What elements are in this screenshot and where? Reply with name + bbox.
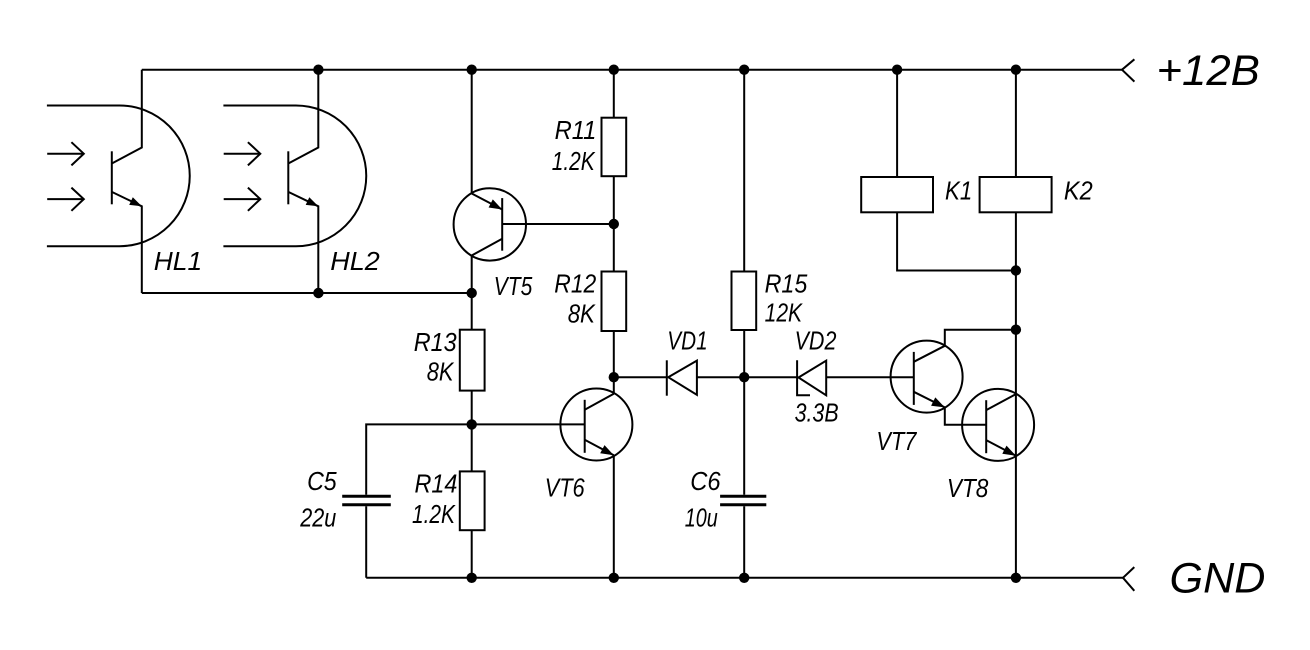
transistor VT8 emitter xyxy=(986,440,1016,456)
transistor VT7 emitter xyxy=(914,392,945,408)
transistor VT5 base bar xyxy=(501,198,503,251)
capacitor C5 plate 1 xyxy=(342,495,391,498)
junction dot R15 top rail xyxy=(739,65,749,75)
transistor VT5 collector xyxy=(472,239,503,293)
bottom GND rail xyxy=(366,577,1123,579)
transistor VT6 emitter xyxy=(585,440,614,456)
wire HL1/HL2 emitters to VT5 collector node xyxy=(142,292,472,294)
resistor R11 xyxy=(602,118,627,177)
capacitor C6 plate 2 xyxy=(720,503,766,506)
svg-text:GND: GND xyxy=(1170,556,1266,603)
wire K2 down to GND through VT8 collector xyxy=(1015,212,1017,578)
transistor VT5 emitter (arrow into bar) xyxy=(472,194,503,210)
zener VD2 cathode bar with hook xyxy=(797,360,810,395)
phototransistor collector of HL1 xyxy=(112,70,142,164)
wire VT5 base to R11/R12 node xyxy=(502,223,614,225)
svg-text:VD1: VD1 xyxy=(667,326,707,356)
svg-text:8K: 8K xyxy=(427,357,455,387)
wire VD1 to node xyxy=(697,376,744,378)
junction dot R11/R12/VT5 base xyxy=(609,219,619,229)
wire C5 to GND rail xyxy=(365,506,367,578)
wire C6 to GND rail xyxy=(743,506,745,578)
junction dot VD1/VT6/R12 xyxy=(609,372,619,382)
wire VT6 base node to C5 xyxy=(366,424,472,494)
svg-text:C6: C6 xyxy=(690,466,721,496)
capacitor C5 plate 2 xyxy=(342,503,391,506)
svg-text:K2: K2 xyxy=(1064,176,1093,206)
junction dot VD1/VD2/R15/C6 xyxy=(739,372,749,382)
phototransistor collector of HL2 xyxy=(288,70,318,164)
top +12V rail xyxy=(142,69,1122,71)
svg-text:VD2: VD2 xyxy=(795,325,837,355)
transistor VT8 base bar xyxy=(985,400,987,453)
wire R12 to VD1 node xyxy=(613,331,615,377)
junction dot VT5 top rail xyxy=(467,65,477,75)
wire VD2 to VT7 base xyxy=(826,376,914,378)
junction dot R13/R14/C5/VT6 base xyxy=(467,419,477,429)
wire R14 to GND rail xyxy=(471,530,473,578)
GND rail end arrow xyxy=(1123,567,1134,591)
svg-text:VT8: VT8 xyxy=(947,473,989,503)
wire K1 to K2 node xyxy=(897,212,1016,270)
optocoupler body HL2 xyxy=(223,106,366,247)
wire VT6 emitter to GND xyxy=(613,455,615,578)
svg-text:8K: 8K xyxy=(568,299,597,329)
resistor R14 xyxy=(460,471,485,530)
svg-text:22u: 22u xyxy=(299,503,336,533)
wire rail to R11 xyxy=(613,70,615,118)
svg-text:VT6: VT6 xyxy=(545,472,585,502)
junction dot R14 GND xyxy=(467,573,477,583)
svg-text:1.2K: 1.2K xyxy=(552,146,596,176)
junction dot VT8 emitter GND xyxy=(1011,573,1021,583)
wire R15 to VD node xyxy=(743,330,745,377)
light arrow 2 of HL2 xyxy=(224,198,260,200)
resistor R12 xyxy=(602,272,627,332)
relay coil K2 xyxy=(980,177,1052,212)
svg-text:R14: R14 xyxy=(415,469,458,499)
svg-text:R13: R13 xyxy=(414,327,457,357)
wire VT6 collector to VD1 node xyxy=(613,377,615,394)
junction dot VT6 emitter GND xyxy=(609,573,619,583)
wire node to R14 xyxy=(471,424,473,471)
svg-text:R15: R15 xyxy=(765,268,808,298)
svg-text:HL2: HL2 xyxy=(330,246,380,276)
wire VT6 node to VD1 xyxy=(614,376,667,378)
junction dot VT7 collector node xyxy=(1011,325,1021,335)
wire VT6 base xyxy=(472,423,585,425)
junction dot R11 top rail xyxy=(609,65,619,75)
wire rail to K2 xyxy=(1015,70,1017,177)
+12B rail end arrow xyxy=(1122,59,1134,81)
svg-text:10u: 10u xyxy=(685,503,718,533)
transistor VT8 circle xyxy=(962,389,1034,461)
light arrow 1 of HL2 xyxy=(224,153,260,155)
optocoupler body HL1 xyxy=(47,106,190,247)
resistor R15 xyxy=(732,272,757,331)
transistor VT6 collector xyxy=(585,394,614,410)
wire VT7 emitter to VT8 base xyxy=(945,407,986,424)
capacitor C6 plate 1 xyxy=(720,495,766,498)
transistor VT8 collector xyxy=(986,394,1016,410)
wire rail to K1 xyxy=(896,70,898,177)
diode VD1 cathode bar xyxy=(666,360,668,395)
svg-text:12K: 12K xyxy=(765,298,804,328)
transistor VT5 circle xyxy=(454,188,526,260)
svg-text:1.2K: 1.2K xyxy=(412,499,456,529)
svg-text:C5: C5 xyxy=(307,466,337,496)
transistor VT6 circle xyxy=(560,389,632,461)
wire rail to R15 xyxy=(743,70,745,272)
transistor VT6 base bar xyxy=(584,400,586,453)
diode VD1 triangle xyxy=(668,361,697,395)
svg-text:+12B: +12B xyxy=(1157,48,1260,95)
svg-text:R12: R12 xyxy=(554,268,596,298)
junction dot K1 top rail xyxy=(892,65,902,75)
zener VD2 triangle xyxy=(799,361,827,396)
svg-text:K1: K1 xyxy=(945,176,972,206)
wire R11 to base node xyxy=(613,176,615,224)
transistor VT7 base bar xyxy=(913,352,915,405)
wire VT5 collector node to R13 xyxy=(471,293,473,330)
phototransistor emitter of HL1 xyxy=(112,192,142,293)
svg-text:R11: R11 xyxy=(555,115,597,145)
wire node to R12 xyxy=(613,224,615,272)
relay coil K1 xyxy=(861,177,933,212)
transistor VT7 collector xyxy=(914,346,945,362)
phototransistor base bar of HL1 xyxy=(111,151,113,204)
svg-text:3.3B: 3.3B xyxy=(795,398,839,428)
light arrow 2 of HL1 xyxy=(47,198,83,200)
svg-text:HL1: HL1 xyxy=(154,246,202,276)
wire VT7 collector to K2 node xyxy=(945,330,1016,346)
wire node to C6 xyxy=(743,377,745,495)
svg-text:VT5: VT5 xyxy=(494,271,533,301)
wire R13 to base node of VT6 xyxy=(471,391,473,425)
junction dot HL2 emitter wire xyxy=(313,288,323,298)
transistor VT7 circle xyxy=(891,341,963,413)
junction dot K1/K2 node xyxy=(1011,265,1021,275)
junction dot C6 GND xyxy=(739,573,749,583)
junction dot K2 top rail xyxy=(1011,65,1021,75)
junction dot HL wire / VT5 collector xyxy=(467,288,477,298)
phototransistor emitter of HL2 xyxy=(288,192,318,293)
resistor R13 xyxy=(460,330,485,391)
light arrow 1 of HL1 xyxy=(47,153,83,155)
svg-text:VT7: VT7 xyxy=(876,426,917,456)
phototransistor base bar of HL2 xyxy=(287,151,289,204)
wire top rail to VT5 emitter xyxy=(471,70,473,194)
wire node to VD2 xyxy=(744,376,797,378)
junction dot HL2 top rail xyxy=(313,65,323,75)
